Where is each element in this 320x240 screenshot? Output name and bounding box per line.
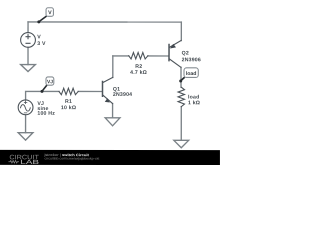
footer banner [0, 150, 220, 165]
transistor Q1 emitter diagonal [103, 95, 113, 103]
wire Q1 emitter to ground [112, 104, 114, 118]
svg-text:R1: R1 [65, 99, 72, 105]
wire load resistor to ground [180, 107, 182, 141]
svg-text:10 kΩ: 10 kΩ [61, 105, 76, 111]
svg-text:V: V [37, 34, 41, 40]
wire V source bottom lead [27, 47, 29, 64]
wire V source top lead [27, 22, 29, 33]
node V box [46, 8, 53, 17]
Q2 emitter arrow [170, 44, 176, 49]
ground below Q1 [105, 118, 120, 126]
transistor Q1 base bar [101, 81, 103, 97]
transistor Q2 emitter diagonal [169, 41, 181, 48]
transistor Q2 collector diagonal [169, 59, 181, 67]
wire R1 to Q1 base [78, 90, 102, 92]
svg-text:Q2: Q2 [182, 51, 189, 57]
svg-text:load: load [186, 71, 197, 77]
wire Q1 collector to R2 row [112, 56, 114, 77]
wire Q2 collector to load resistor [180, 67, 182, 87]
wire top rail [28, 21, 181, 23]
ground below load [174, 140, 189, 147]
svg-text:2N3904: 2N3904 [113, 92, 132, 98]
node load pointer [181, 77, 185, 81]
node V pointer [39, 16, 47, 22]
svg-text:2N3906: 2N3906 [182, 57, 201, 63]
resistor R2 [129, 53, 148, 59]
wire R2 to Q2 base [148, 55, 169, 57]
svg-text:LAB: LAB [20, 160, 39, 165]
node load box [184, 68, 198, 78]
transistor Q1 collector diagonal [103, 77, 113, 82]
resistor load [178, 87, 184, 106]
wire Q2 emitter vertical [180, 22, 182, 40]
svg-text:V: V [48, 10, 52, 16]
Q1 emitter arrow [105, 98, 110, 102]
svg-text:circuitlab.com/cme/w/pqbbsxkp-: circuitlab.com/cme/w/pqbbsxkp-ckt [44, 157, 99, 161]
svg-text:4.7 kΩ: 4.7 kΩ [130, 70, 147, 76]
node VJ pointer [42, 85, 47, 91]
footer logo resistor glyph [8, 160, 19, 163]
resistor R1 [59, 88, 78, 94]
svg-text:1 kΩ: 1 kΩ [188, 100, 200, 106]
wire VJ bottom lead [25, 115, 27, 133]
wire R2 row left [113, 55, 129, 57]
sine source VJ [18, 100, 33, 115]
transistor Q2 base bar [168, 44, 170, 62]
ground below VJ [18, 133, 33, 141]
svg-text:100 Hz: 100 Hz [37, 111, 55, 117]
voltage source V [21, 33, 36, 48]
ground below V [21, 65, 36, 72]
wire VJ top lead [26, 91, 59, 100]
svg-text:VJ: VJ [47, 79, 53, 85]
node VJ box [46, 77, 54, 85]
svg-text:3 V: 3 V [37, 41, 46, 47]
